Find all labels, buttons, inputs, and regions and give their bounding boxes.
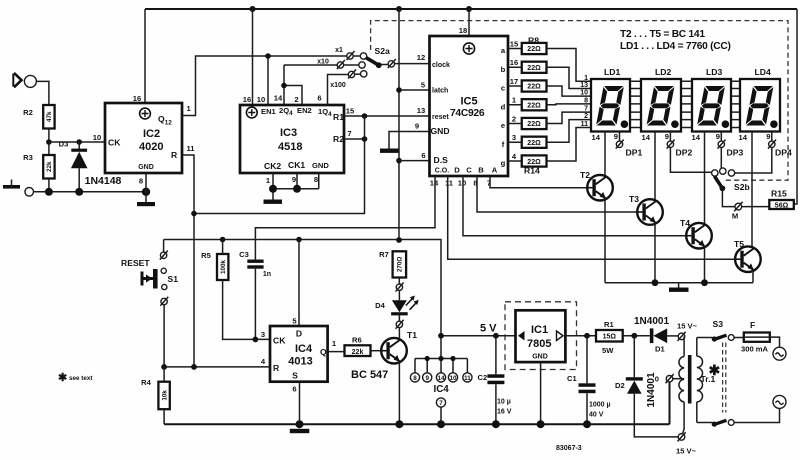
svg-text:reset: reset	[432, 114, 449, 121]
wire IC1 out to R1	[565, 335, 596, 337]
svg-text:22k: 22k	[352, 349, 364, 356]
svg-text:100k: 100k	[220, 260, 227, 275]
svg-text:S3: S3	[713, 319, 724, 329]
wire IC2 R pin11 down left side	[182, 155, 194, 367]
svg-text:S: S	[292, 371, 298, 381]
svg-text:B: B	[478, 166, 484, 175]
resistor R2 47k	[23, 105, 54, 129]
resistor R7 270 ohm	[379, 250, 406, 284]
svg-text:47k: 47k	[46, 111, 53, 122]
svg-text:9: 9	[716, 132, 720, 141]
capacitor C2 10u	[478, 336, 512, 428]
wire ground rail to IC2 pin 8	[34, 191, 147, 193]
svg-text:GND: GND	[138, 164, 154, 171]
node R3 gnd junction	[45, 188, 53, 196]
svg-text:4518: 4518	[278, 141, 302, 153]
svg-text:0: 0	[655, 375, 659, 384]
node EN1 junction on x1 line	[265, 53, 271, 59]
display LD2	[641, 67, 681, 132]
switch S2a wiper and common	[366, 46, 430, 68]
wire right edge rail down to R15	[794, 9, 797, 204]
svg-text:R4: R4	[141, 378, 151, 387]
svg-text:2: 2	[512, 115, 516, 124]
node rail-IC5 junction	[466, 6, 472, 12]
op-amp IC5 74C926 counter display driver	[430, 36, 509, 188]
node 5V left junction	[438, 333, 444, 339]
display LD3 pin9 DP3	[716, 132, 744, 158]
node D3 top junction	[76, 139, 82, 145]
svg-text:CK: CK	[108, 138, 121, 148]
svg-text:18: 18	[459, 26, 467, 35]
display LD1 pin9 DP1	[614, 132, 643, 158]
terminal 0 centre tap	[655, 374, 684, 424]
svg-text:GND: GND	[532, 354, 548, 361]
svg-text:DP2: DP2	[676, 148, 693, 158]
svg-text:1000 µ: 1000 µ	[589, 402, 611, 409]
svg-text:9: 9	[766, 132, 770, 141]
fuse F 300mA	[741, 320, 780, 354]
svg-text:1n: 1n	[263, 271, 271, 278]
wire segment f to display line 2	[547, 120, 592, 143]
node T3 emitter junction	[652, 279, 659, 286]
svg-text:12: 12	[417, 53, 425, 62]
svg-text:IC1: IC1	[531, 324, 548, 336]
switch S2b	[712, 168, 750, 192]
svg-text:T2: T2	[580, 170, 590, 180]
svg-text:10: 10	[93, 133, 101, 142]
ground IC5 pin9	[380, 122, 430, 153]
svg-text:10: 10	[449, 375, 457, 382]
node R1 reset junction	[362, 113, 368, 119]
svg-text:b: b	[501, 65, 506, 74]
svg-text:9: 9	[425, 375, 429, 382]
wire IC3 R1 pin15 to IC5 reset	[344, 107, 430, 117]
svg-text:11: 11	[464, 375, 471, 382]
wire EN1 down to IC3	[267, 56, 269, 105]
node R2 junction	[362, 136, 368, 142]
svg-text:x1: x1	[335, 47, 343, 54]
terminal M	[732, 202, 743, 221]
svg-text:D: D	[296, 329, 302, 339]
svg-text:LD4: LD4	[755, 67, 771, 77]
terminal 15V bottom	[676, 432, 697, 455]
resistor 22 ohm segment f	[502, 133, 547, 149]
svg-text:clock: clock	[432, 62, 450, 69]
transistor T3	[629, 194, 663, 283]
op-amp IC4 4013 flipflop	[261, 240, 337, 425]
wire CK line to IC2 pin 10	[49, 133, 105, 142]
node T4 emitter junction	[701, 279, 708, 286]
svg-text:e: e	[501, 121, 505, 130]
note text BC141 7760	[620, 29, 731, 52]
svg-text:latch: latch	[432, 88, 448, 95]
svg-text:22Ω: 22Ω	[527, 140, 541, 147]
ac source neutral	[773, 395, 786, 408]
node D2 junction	[631, 333, 637, 339]
svg-text:15 V~: 15 V~	[677, 322, 698, 331]
resistor R15 56 ohm	[742, 189, 794, 210]
svg-text:IC4: IC4	[295, 343, 313, 355]
svg-text:R14: R14	[524, 166, 540, 176]
svg-text:8: 8	[139, 177, 143, 186]
pushbutton S1 RESET	[121, 240, 178, 367]
svg-text:EN2: EN2	[297, 106, 312, 115]
node R5 top junction	[220, 237, 226, 243]
wire segment e to display line 7	[547, 112, 592, 123]
switch S2a x1 contact	[335, 47, 367, 60]
svg-text:8: 8	[584, 98, 588, 105]
wire IC4 R pin4 line	[164, 357, 270, 367]
svg-text:EN1: EN1	[261, 107, 277, 116]
svg-text:8: 8	[314, 175, 318, 184]
switch S3 upper	[697, 319, 744, 342]
svg-text:DP3: DP3	[727, 148, 744, 158]
svg-text:7805: 7805	[527, 338, 551, 350]
svg-text:56Ω: 56Ω	[775, 202, 789, 209]
wire reset net down and left to IC2 R	[194, 116, 365, 214]
resistor R1 15 ohm 5W	[596, 320, 650, 355]
resistor 22 ohm segment d	[501, 96, 547, 112]
svg-text:C1: C1	[567, 374, 577, 383]
node reset/IC2R junction	[191, 211, 197, 217]
wire input to R2	[36, 81, 49, 105]
wire S2b wiper to M terminal	[722, 188, 735, 206]
wire segment g to display line 11	[547, 128, 592, 162]
svg-text:13: 13	[417, 106, 425, 115]
op-amp IC3 4518 counter	[240, 94, 344, 186]
svg-text:F: F	[750, 320, 755, 330]
svg-text:R7: R7	[379, 250, 389, 259]
display LD3 pin14 wire to T4 collector	[692, 132, 705, 224]
svg-text:10: 10	[458, 179, 466, 188]
wire IC5 D pin11 to T5 base	[448, 176, 735, 259]
display LD1 pin14 wire to T2 collector	[592, 132, 605, 176]
svg-text:74C926: 74C926	[450, 108, 485, 119]
svg-text:LD2: LD2	[655, 67, 671, 77]
svg-text:22Ω: 22Ω	[527, 84, 541, 91]
svg-text:16: 16	[133, 94, 141, 103]
svg-text:CK2: CK2	[264, 161, 281, 171]
ac source live	[773, 347, 786, 360]
node C3 CK junction	[253, 337, 259, 343]
svg-text:LD1: LD1	[604, 67, 620, 77]
svg-text:22Ω: 22Ω	[527, 103, 541, 110]
node S1 R4 junction	[161, 364, 167, 370]
svg-text:14: 14	[692, 133, 701, 142]
voltage regulator IC1 7805	[505, 302, 577, 428]
display LD2 pin9 DP2	[665, 132, 693, 158]
svg-text:T1: T1	[407, 330, 417, 340]
ground IC4 pin6	[290, 420, 310, 433]
svg-text:BC 547: BC 547	[351, 369, 388, 381]
svg-text:T2 . . . T5 = BC 141: T2 . . . T5 = BC 141	[620, 29, 705, 40]
svg-text:GND: GND	[312, 161, 329, 170]
node C1 top junction	[584, 333, 590, 339]
display LD1	[591, 67, 630, 132]
svg-text:CK: CK	[273, 336, 286, 346]
svg-text:D: D	[454, 166, 460, 175]
node rail-latch junction	[396, 6, 402, 12]
node R7 junction	[396, 237, 402, 243]
svg-text:9: 9	[614, 132, 618, 141]
svg-text:3: 3	[261, 330, 265, 339]
svg-text:1N4001: 1N4001	[634, 316, 669, 327]
wire IC5 A pin7 to T2 base	[490, 176, 587, 188]
resistor R8 22 ohm segment a	[501, 36, 547, 56]
svg-text:7: 7	[439, 400, 443, 407]
svg-text:IC3: IC3	[280, 127, 297, 139]
node IC2R line junction	[191, 364, 197, 370]
resistor R5 100k	[201, 240, 270, 340]
ground IC3 pins 1 9 8	[264, 173, 319, 204]
svg-text:22Ω: 22Ω	[527, 121, 541, 128]
svg-text:300 mA: 300 mA	[741, 345, 769, 354]
resistor R4 10k	[141, 367, 170, 424]
svg-text:S1: S1	[168, 274, 179, 284]
svg-text:6: 6	[292, 385, 296, 394]
wire DP4 to S2b right contact	[735, 148, 772, 174]
svg-text:5 V: 5 V	[480, 323, 497, 335]
svg-text:9: 9	[415, 122, 419, 131]
svg-text:9: 9	[292, 175, 296, 184]
transformer Tr1	[679, 336, 721, 433]
display pin number column	[580, 75, 588, 128]
svg-text:D3: D3	[59, 140, 69, 149]
wire IC2 Q12 to x1 contact	[182, 56, 347, 116]
svg-text:10 µ: 10 µ	[497, 399, 511, 406]
svg-text:C3: C3	[239, 250, 249, 259]
svg-text:16: 16	[243, 95, 251, 104]
wire segment c to display line 10	[547, 86, 592, 96]
svg-text:9: 9	[665, 132, 669, 141]
node T1 emitter junction	[395, 420, 403, 428]
transistor T1 BC547	[351, 330, 417, 424]
wire segment a to display line 1	[547, 49, 592, 82]
wire R3 bottom to ground rail	[48, 179, 50, 192]
wire DP3 to S2b mid contact	[720, 148, 722, 169]
switch S3 lower	[697, 408, 780, 426]
resistor 22 ohm segment b	[501, 58, 547, 74]
diode D2 1N4001	[615, 336, 678, 437]
transistor T5	[734, 239, 761, 283]
wire IC4 Q to R6	[328, 351, 345, 353]
wire latch to vertical	[399, 9, 430, 240]
svg-text:✱: ✱	[58, 372, 67, 384]
switch S3 gang dashes	[723, 343, 726, 413]
diode D3 1N4148	[59, 140, 122, 192]
svg-text:6: 6	[421, 151, 425, 160]
svg-text:83067-3: 83067-3	[556, 445, 582, 452]
node IC4 D pin5 junction	[296, 237, 302, 243]
svg-text:g: g	[501, 159, 506, 168]
transistor T4	[680, 218, 712, 283]
svg-text:d: d	[501, 102, 506, 111]
svg-text:see text: see text	[69, 375, 93, 382]
svg-text:A: A	[492, 166, 498, 175]
ground emitter rail	[669, 283, 689, 292]
svg-text:14: 14	[437, 375, 445, 382]
capacitor C1 1000u	[567, 336, 611, 428]
svg-text:14: 14	[739, 133, 748, 142]
resistor R3 22k	[23, 153, 54, 179]
svg-text:RESET: RESET	[121, 258, 150, 268]
svg-text:D1: D1	[655, 345, 665, 354]
svg-text:IC2: IC2	[143, 128, 160, 140]
wire bottom ground rail	[164, 423, 669, 425]
wire IC3 pin16 to rail	[252, 9, 254, 105]
led D4	[375, 283, 419, 338]
svg-text:R: R	[273, 363, 280, 373]
svg-text:22k: 22k	[46, 161, 53, 172]
svg-text:40 V: 40 V	[589, 412, 604, 419]
switch S2a x10 contact	[284, 59, 365, 70]
svg-text:R3: R3	[23, 153, 33, 162]
svg-text:4020: 4020	[139, 141, 163, 153]
terminal 15V top	[677, 322, 698, 341]
wire DP2 to S2b left contact	[670, 148, 711, 173]
svg-text:R2: R2	[333, 134, 344, 144]
svg-text:S2a: S2a	[375, 46, 391, 56]
ground IC2	[137, 173, 155, 206]
svg-text:IC5: IC5	[461, 96, 478, 108]
svg-text:R1: R1	[604, 320, 614, 329]
svg-text:Q: Q	[320, 347, 327, 357]
svg-text:14: 14	[274, 94, 283, 103]
svg-text:7: 7	[347, 129, 351, 138]
svg-text:16 V: 16 V	[497, 409, 512, 416]
svg-text:DP1: DP1	[626, 148, 643, 158]
node IC2 gnd junction	[142, 188, 150, 196]
node DS junction	[396, 158, 402, 164]
wire segment ticks between displays	[630, 81, 740, 127]
svg-text:2: 2	[294, 95, 298, 104]
svg-text:22Ω: 22Ω	[527, 65, 541, 72]
input connector J1	[13, 73, 36, 88]
svg-text:10: 10	[257, 95, 265, 104]
svg-text:D2: D2	[615, 381, 625, 390]
switch S2a x100 contact	[328, 70, 367, 106]
svg-text:5W: 5W	[602, 346, 614, 355]
wire IC5 CO pin14 to C3	[255, 176, 435, 260]
wire IC4 supply bus	[415, 336, 467, 373]
svg-text:11: 11	[581, 121, 589, 128]
svg-text:D.S: D.S	[434, 155, 449, 165]
display LD4	[740, 67, 780, 132]
capacitor C3 1n	[239, 250, 271, 339]
svg-text:15Ω: 15Ω	[603, 334, 617, 341]
svg-text:4013: 4013	[288, 356, 312, 368]
svg-text:S2b: S2b	[734, 182, 750, 192]
node D3 gnd junction	[75, 188, 83, 196]
svg-text:LD1 . . . LD4 = 7760 (CC): LD1 . . . LD4 = 7760 (CC)	[620, 41, 731, 52]
wire S1 rail to R7 area	[164, 240, 441, 336]
node rail-IC3 junction	[250, 6, 256, 12]
svg-text:C.O.: C.O.	[435, 168, 449, 175]
svg-text:15: 15	[346, 107, 355, 116]
svg-text:10: 10	[580, 90, 588, 97]
svg-text:8: 8	[413, 375, 417, 382]
svg-text:DP4: DP4	[775, 148, 792, 158]
display LD3	[692, 67, 731, 132]
resistor 22 ohm segment e	[501, 115, 547, 131]
svg-text:CK1: CK1	[288, 160, 305, 170]
svg-text:1: 1	[584, 75, 588, 82]
resistor R14 22 ohm segment g	[501, 152, 547, 176]
svg-text:16: 16	[510, 58, 518, 67]
svg-text:R5: R5	[201, 251, 211, 260]
svg-text:15 V~: 15 V~	[676, 447, 697, 456]
svg-text:R15: R15	[771, 189, 787, 199]
wire 5V rail	[441, 323, 516, 336]
diode D1 1N4001	[634, 316, 678, 354]
svg-text:✱: ✱	[709, 362, 721, 378]
svg-text:2: 2	[584, 113, 588, 120]
wire IC5 C pin10 to T4 base	[463, 176, 686, 236]
display LD4 pin9 DP4	[766, 132, 792, 158]
svg-text:14: 14	[642, 133, 651, 142]
wire segment d to display line 8	[547, 103, 592, 106]
svg-text:3: 3	[512, 133, 516, 142]
svg-text:1N4148: 1N4148	[85, 175, 122, 187]
display LD2 pin14 wire to T3 collector	[642, 132, 655, 201]
IC4 power pin circles	[410, 373, 472, 428]
wire +5V top rail	[145, 8, 797, 10]
svg-text:R1: R1	[333, 112, 344, 122]
wire IC2 pin16 to rail	[144, 9, 146, 103]
svg-text:LD3: LD3	[706, 67, 722, 77]
svg-text:IC4: IC4	[434, 384, 450, 395]
node 2Q4/EN2 junction	[281, 83, 287, 89]
node latch junction	[396, 87, 402, 93]
svg-text:14: 14	[592, 133, 601, 142]
svg-text:17: 17	[510, 77, 518, 86]
svg-text:270Ω: 270Ω	[397, 257, 404, 273]
wire emitter common rail	[605, 282, 753, 284]
svg-text:6: 6	[317, 94, 321, 103]
resistor R6 22k	[345, 336, 382, 357]
display LD4 pin14 wire to T5 collector	[739, 132, 752, 248]
wire R2 to R3	[48, 129, 50, 156]
note see text	[58, 372, 93, 384]
svg-text:R6: R6	[352, 336, 362, 345]
svg-text:11: 11	[187, 144, 196, 153]
svg-text:11: 11	[445, 179, 454, 188]
node C2 top junction	[493, 333, 499, 339]
svg-text:c: c	[501, 84, 505, 93]
svg-text:M: M	[732, 212, 738, 221]
resistor 22 ohm segment c	[501, 77, 547, 93]
wire DS to IC5	[399, 151, 430, 161]
ground terminal circle	[3, 180, 34, 197]
transistor T2 BC141	[580, 170, 613, 283]
wire segment b to display line 13	[547, 67, 592, 88]
wire IC5 B pin8 to T3 base	[477, 176, 637, 212]
wire IC3 R2 pin7	[344, 129, 365, 139]
svg-text:R2: R2	[23, 108, 33, 117]
wire IC3 pin14 2Q4 to x10 and EN2	[284, 65, 302, 105]
svg-text:10k: 10k	[161, 390, 168, 401]
svg-text:22Ω: 22Ω	[527, 46, 541, 53]
svg-text:D4: D4	[375, 301, 385, 310]
svg-text:T3: T3	[629, 194, 639, 204]
svg-text:C: C	[466, 166, 472, 175]
svg-text:C2: C2	[478, 373, 488, 382]
wire dashed gang coupling S2a-S2b	[371, 21, 788, 181]
svg-text:15: 15	[510, 40, 519, 49]
svg-text:7: 7	[584, 106, 588, 113]
svg-text:GND: GND	[431, 126, 450, 136]
svg-text:x100: x100	[330, 82, 346, 89]
